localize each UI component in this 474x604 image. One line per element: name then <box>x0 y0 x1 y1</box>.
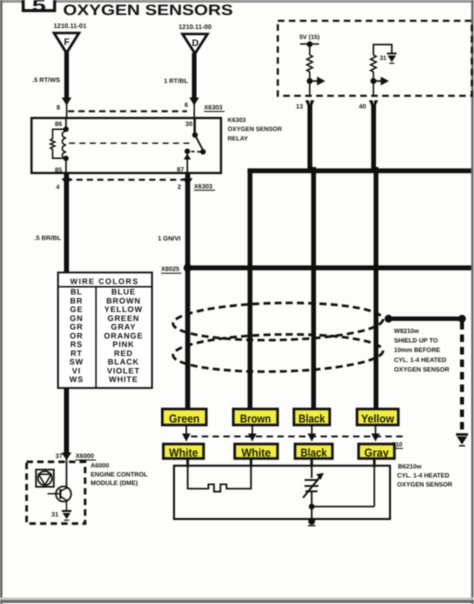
svg-text:OXYGEN SENSOR: OXYGEN SENSOR <box>394 366 450 373</box>
wire resistor to pin 40 with signal arrow <box>370 72 389 97</box>
wire stubs White/White/Black tags into sensor box <box>186 459 375 467</box>
svg-text:White: White <box>169 447 198 459</box>
svg-text:Brown: Brown <box>240 413 271 425</box>
connector F (sensor plug 1210.11-01) <box>54 33 79 53</box>
svg-text:.5 RT/WS: .5 RT/WS <box>32 77 60 84</box>
wire tag Black (sensor -) <box>295 444 332 459</box>
svg-text:Gray: Gray <box>364 447 389 459</box>
svg-text:2: 2 <box>177 184 181 191</box>
relay label K6303 OXYGEN SENSOR RELAY <box>228 117 283 143</box>
wire tag Brown <box>233 409 277 425</box>
svg-text:85: 85 <box>55 167 63 174</box>
svg-text:SHIELD UP TO: SHIELD UP TO <box>394 338 438 345</box>
wire DME pin 40 down to sensor (Gray) <box>369 100 379 409</box>
svg-text:CYL. 1-4 HEATED: CYL. 1-4 HEATED <box>394 357 447 364</box>
svg-text:Black: Black <box>300 447 327 459</box>
sensor label B6210w CYL. 1-4 HEATED OXYGEN SENSOR <box>397 464 453 489</box>
svg-text:D: D <box>192 38 199 49</box>
wire .5 RT/WS (triangle F down to connector X6303 pin 8) <box>62 52 72 119</box>
svg-text:RELAY: RELAY <box>228 136 249 143</box>
svg-text:OXYGEN SENSOR: OXYGEN SENSOR <box>397 482 453 489</box>
svg-text:1 RT/BL: 1 RT/BL <box>164 78 188 85</box>
svg-text:GR: GR <box>70 323 83 332</box>
svg-text:86: 86 <box>55 121 63 128</box>
svg-text:GRAY: GRAY <box>111 323 136 332</box>
svg-text:Green: Green <box>169 413 200 425</box>
connector arrow Green to White <box>182 426 191 442</box>
svg-text:OXYGEN SENSOR: OXYGEN SENSOR <box>228 126 283 133</box>
svg-text:30: 30 <box>185 121 193 128</box>
svg-text:Yellow: Yellow <box>361 413 394 425</box>
svg-text:X6000: X6000 <box>76 453 95 460</box>
label X6303 (bottom) <box>194 183 215 190</box>
svg-text:A6000: A6000 <box>91 462 110 469</box>
svg-text:X8025: X8025 <box>161 266 180 273</box>
label 210 <box>392 442 403 449</box>
svg-text:87: 87 <box>177 167 185 174</box>
svg-text:VIOLET: VIOLET <box>107 366 140 375</box>
svg-text:VI: VI <box>72 366 81 375</box>
DME control module dashed box <box>27 462 86 524</box>
connector arrow Brown to White <box>248 426 257 442</box>
svg-text:31: 31 <box>51 511 59 518</box>
bus wire X8025 (horizontal to page right) <box>188 265 472 270</box>
svg-text:.5 BR/BL: .5 BR/BL <box>34 235 61 242</box>
svg-text:WS: WS <box>69 375 83 384</box>
svg-text:White: White <box>241 447 271 459</box>
wire resistor to pin 13 with signal arrow <box>307 72 326 97</box>
bus wire to cyl 5-8 sensors (horizontal, off page right) <box>248 168 472 173</box>
svg-text:RS: RS <box>70 340 83 349</box>
svg-text:YELLOW: YELLOW <box>104 305 142 314</box>
svg-text:31: 31 <box>380 55 387 62</box>
svg-text:RT: RT <box>70 349 82 358</box>
wire tag Green <box>162 409 206 425</box>
relay coil with parallel resistor <box>50 118 68 174</box>
svg-text:10mm BEFORE: 10mm BEFORE <box>394 347 440 354</box>
oxygen sensor B6210w box <box>174 466 390 519</box>
relay switch (30 to 87) <box>184 118 206 173</box>
shield ellipse lower (dashed) <box>173 332 384 373</box>
svg-text:GREEN: GREEN <box>108 314 140 323</box>
svg-text:8: 8 <box>56 105 60 112</box>
sensor cell element (variable) <box>303 466 324 507</box>
resistor R (pull-down to 31) <box>371 55 377 72</box>
relay K6303 box <box>32 118 222 173</box>
svg-text:BR: BR <box>70 296 83 305</box>
DME input stage dashed box (top right) <box>278 21 472 96</box>
svg-text:WIRE COLORS: WIRE COLORS <box>70 277 139 286</box>
svg-text:40: 40 <box>359 104 367 111</box>
sensor internal junction and wire to Gray pin <box>309 460 374 510</box>
svg-text:W8210w: W8210w <box>394 328 419 335</box>
connector dashed line (sensor plug) <box>191 435 406 437</box>
svg-text:GN: GN <box>70 314 83 323</box>
wire 1 RT/BL (triangle D down to connector X6303 pin 6) <box>189 53 199 136</box>
svg-text:37: 37 <box>55 453 63 460</box>
svg-text:GE: GE <box>70 305 83 314</box>
svg-text:X6303: X6303 <box>204 105 223 112</box>
svg-text:CYL. 1-4 HEATED: CYL. 1-4 HEATED <box>397 473 450 480</box>
svg-text:OR: OR <box>70 331 83 340</box>
resistor R (pull-up to 5V) <box>307 55 313 72</box>
svg-text:F: F <box>64 37 70 48</box>
connector X6303 dashed line (bottom) <box>66 179 184 181</box>
svg-text:ORANGE: ORANGE <box>104 331 143 340</box>
wire tag Gray (sensor +) <box>359 444 395 459</box>
svg-text:B6210w: B6210w <box>398 464 422 471</box>
svg-text:Black: Black <box>299 413 326 425</box>
svg-text:1210.11-00: 1210.11-00 <box>178 24 211 31</box>
label A6000 ENGINE CONTROL MODULE (DME) <box>91 462 148 487</box>
svg-text:13: 13 <box>296 104 304 111</box>
wire tag White (heater +) <box>163 444 203 459</box>
svg-text:4: 4 <box>56 184 60 191</box>
svg-text:6: 6 <box>184 102 188 109</box>
connector arrow Black to Black <box>308 426 317 442</box>
label X6303 (top) <box>204 105 225 112</box>
connector X6303 dashed line (top) <box>68 110 187 112</box>
svg-text:BLUE: BLUE <box>111 288 136 297</box>
heater element <box>188 466 251 492</box>
svg-text:PINK: PINK <box>113 340 135 349</box>
shield note W8210w <box>394 328 450 373</box>
svg-text:5V (15): 5V (15) <box>299 34 319 41</box>
5V supply rail bar with node <box>300 41 319 55</box>
svg-text:BROWN: BROWN <box>106 296 141 305</box>
sensor case ground <box>308 507 315 526</box>
connector arrow Yellow to Gray <box>371 426 380 442</box>
svg-text:OXYGEN SENSORS: OXYGEN SENSORS <box>63 2 233 19</box>
svg-text:SW: SW <box>69 358 83 367</box>
svg-text:5: 5 <box>32 0 46 15</box>
wire bus down to sensor (Brown) <box>248 168 253 409</box>
svg-text:BLACK: BLACK <box>108 358 140 367</box>
node X8025 junction dot <box>184 264 192 272</box>
wire relay pin 4 to DME pin 37 (.5 BR/BL) <box>62 174 72 489</box>
svg-text:RED: RED <box>114 349 133 358</box>
svg-text:ENGINE CONTROL: ENGINE CONTROL <box>91 471 148 478</box>
DME electronic icon <box>36 470 54 487</box>
ground 31 (DME output) <box>62 511 72 520</box>
svg-text:MODULE (DME): MODULE (DME) <box>91 480 138 487</box>
label X8025 <box>161 266 182 273</box>
ground bracket 31 (top right) <box>373 45 396 64</box>
svg-text:BL: BL <box>70 288 82 297</box>
svg-text:X6303: X6303 <box>194 183 213 190</box>
WIRE COLORS legend table <box>58 273 152 389</box>
connector D (sensor plug 1210.11-00) <box>183 34 208 54</box>
wire DME pin 13 down to sensor (Black) <box>305 100 316 409</box>
wire tag Black (signal) <box>294 409 330 425</box>
svg-text:1 GN/VI: 1 GN/VI <box>158 236 181 243</box>
transistor Q (output driver) <box>48 460 72 510</box>
shield drain wire to ground <box>385 315 468 446</box>
wire tag White (heater -) <box>235 444 278 459</box>
header tab numeral 5 <box>23 0 54 15</box>
wire tag Yellow <box>357 409 398 425</box>
shield ellipse upper (dashed) <box>173 301 384 342</box>
relay actuation dashed line <box>69 142 192 144</box>
wire relay pin 87/2 down (1 GN/VI) <box>183 174 193 409</box>
svg-text:1210.11-01: 1210.11-01 <box>53 23 86 30</box>
label X6000 <box>76 453 97 460</box>
svg-text:K6303: K6303 <box>228 117 247 124</box>
svg-text:WHITE: WHITE <box>109 375 138 384</box>
